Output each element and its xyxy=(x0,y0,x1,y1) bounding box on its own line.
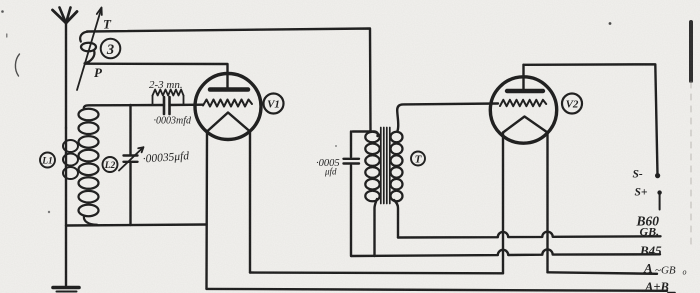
svg-text:L2: L2 xyxy=(104,161,116,171)
wire A+B- rail xyxy=(207,289,668,291)
wire A-GB+ left segment xyxy=(250,271,503,274)
coil L1 xyxy=(63,140,78,179)
wire B45 line with hops xyxy=(351,249,660,256)
svg-text:S-: S- xyxy=(633,169,643,181)
V1 plate xyxy=(210,87,248,92)
wire tee into transformer primary top xyxy=(353,132,378,137)
svg-text:·00035μfd: ·00035μfd xyxy=(142,150,189,165)
wire S+ to B60 terminal xyxy=(659,195,661,210)
V1 filament xyxy=(207,113,250,132)
label T xyxy=(411,152,425,166)
svg-text:A: A xyxy=(643,261,653,276)
svg-text:A+B: A+B xyxy=(644,280,669,293)
svg-text:P: P xyxy=(94,65,103,80)
svg-text:μfd: μfd xyxy=(324,167,337,177)
V2 grid xyxy=(500,100,546,106)
tube V1 left filament leg xyxy=(205,132,208,289)
svg-text:o: o xyxy=(683,268,687,277)
antenna xyxy=(53,8,78,129)
coil L2 xyxy=(79,109,99,225)
wire tickler P to V1 plate xyxy=(86,64,228,88)
wire transformer secondary bottom to GB- xyxy=(394,200,398,238)
scan speckles xyxy=(1,10,4,13)
coupling arrow xyxy=(77,8,102,91)
resistor grid leak 2-3 meg xyxy=(153,90,184,106)
svg-text:~GB: ~GB xyxy=(655,265,676,277)
terminal S- xyxy=(655,173,660,178)
V2 plate xyxy=(507,89,543,93)
label L1 xyxy=(40,153,55,168)
wire grid into V1 xyxy=(170,103,204,106)
terminal S+ xyxy=(657,190,661,194)
transformer T primary xyxy=(365,132,379,202)
V2 filament xyxy=(503,117,548,133)
transformer core xyxy=(381,128,390,204)
variable capacitor plates xyxy=(124,156,138,162)
label V2 xyxy=(562,94,582,114)
variable capacitor .00035 mfd branch wire xyxy=(129,105,131,155)
label V1 xyxy=(264,94,284,114)
wire GB- line with hops xyxy=(398,232,661,238)
wire tickler T to transformer primary xyxy=(87,29,371,132)
variable capacitor arrow xyxy=(119,147,144,170)
svg-text:V2: V2 xyxy=(566,99,579,111)
svg-text:2-3 mn.: 2-3 mn. xyxy=(149,79,183,91)
wire grid circuit from L2 top xyxy=(84,105,164,109)
tube V2 right filament leg xyxy=(546,133,548,273)
label L3 xyxy=(101,39,121,59)
svg-text:B45: B45 xyxy=(639,243,662,258)
tube V1 xyxy=(195,74,261,140)
capacitor .0005 mfd xyxy=(350,132,352,158)
V1 grid xyxy=(203,100,252,107)
tube V2 left filament leg xyxy=(502,133,504,274)
wire A-GB+ right segment xyxy=(548,272,658,274)
wire V2 plate lead xyxy=(522,65,524,89)
svg-text:S+: S+ xyxy=(635,187,648,199)
label L2 xyxy=(103,157,118,172)
tube V2 xyxy=(490,77,556,143)
wire transformer secondary top to V2 grid xyxy=(397,104,498,132)
svg-text:L1: L1 xyxy=(41,157,53,167)
coil L3 tickler xyxy=(80,32,96,64)
wire antenna down to ground xyxy=(65,128,67,286)
wire input stage bottom xyxy=(66,225,207,226)
capacitor C .0003 mfd (grid condenser) xyxy=(164,97,170,114)
ground xyxy=(53,288,79,292)
tube V1 right filament leg xyxy=(249,132,251,273)
svg-text:V1: V1 xyxy=(267,99,280,111)
wire V2 plate to S- terminal xyxy=(524,64,658,175)
svg-text:3: 3 xyxy=(106,42,114,58)
svg-text:T: T xyxy=(103,17,112,32)
scan artifact left parenthesis xyxy=(15,54,19,76)
scan artifact right edge bar xyxy=(689,22,693,81)
wire transformer primary bottom to B45 xyxy=(375,199,378,256)
transformer T secondary xyxy=(391,132,403,202)
svg-text:B60: B60 xyxy=(636,214,660,229)
svg-text:·0003mfd: ·0003mfd xyxy=(154,116,193,127)
